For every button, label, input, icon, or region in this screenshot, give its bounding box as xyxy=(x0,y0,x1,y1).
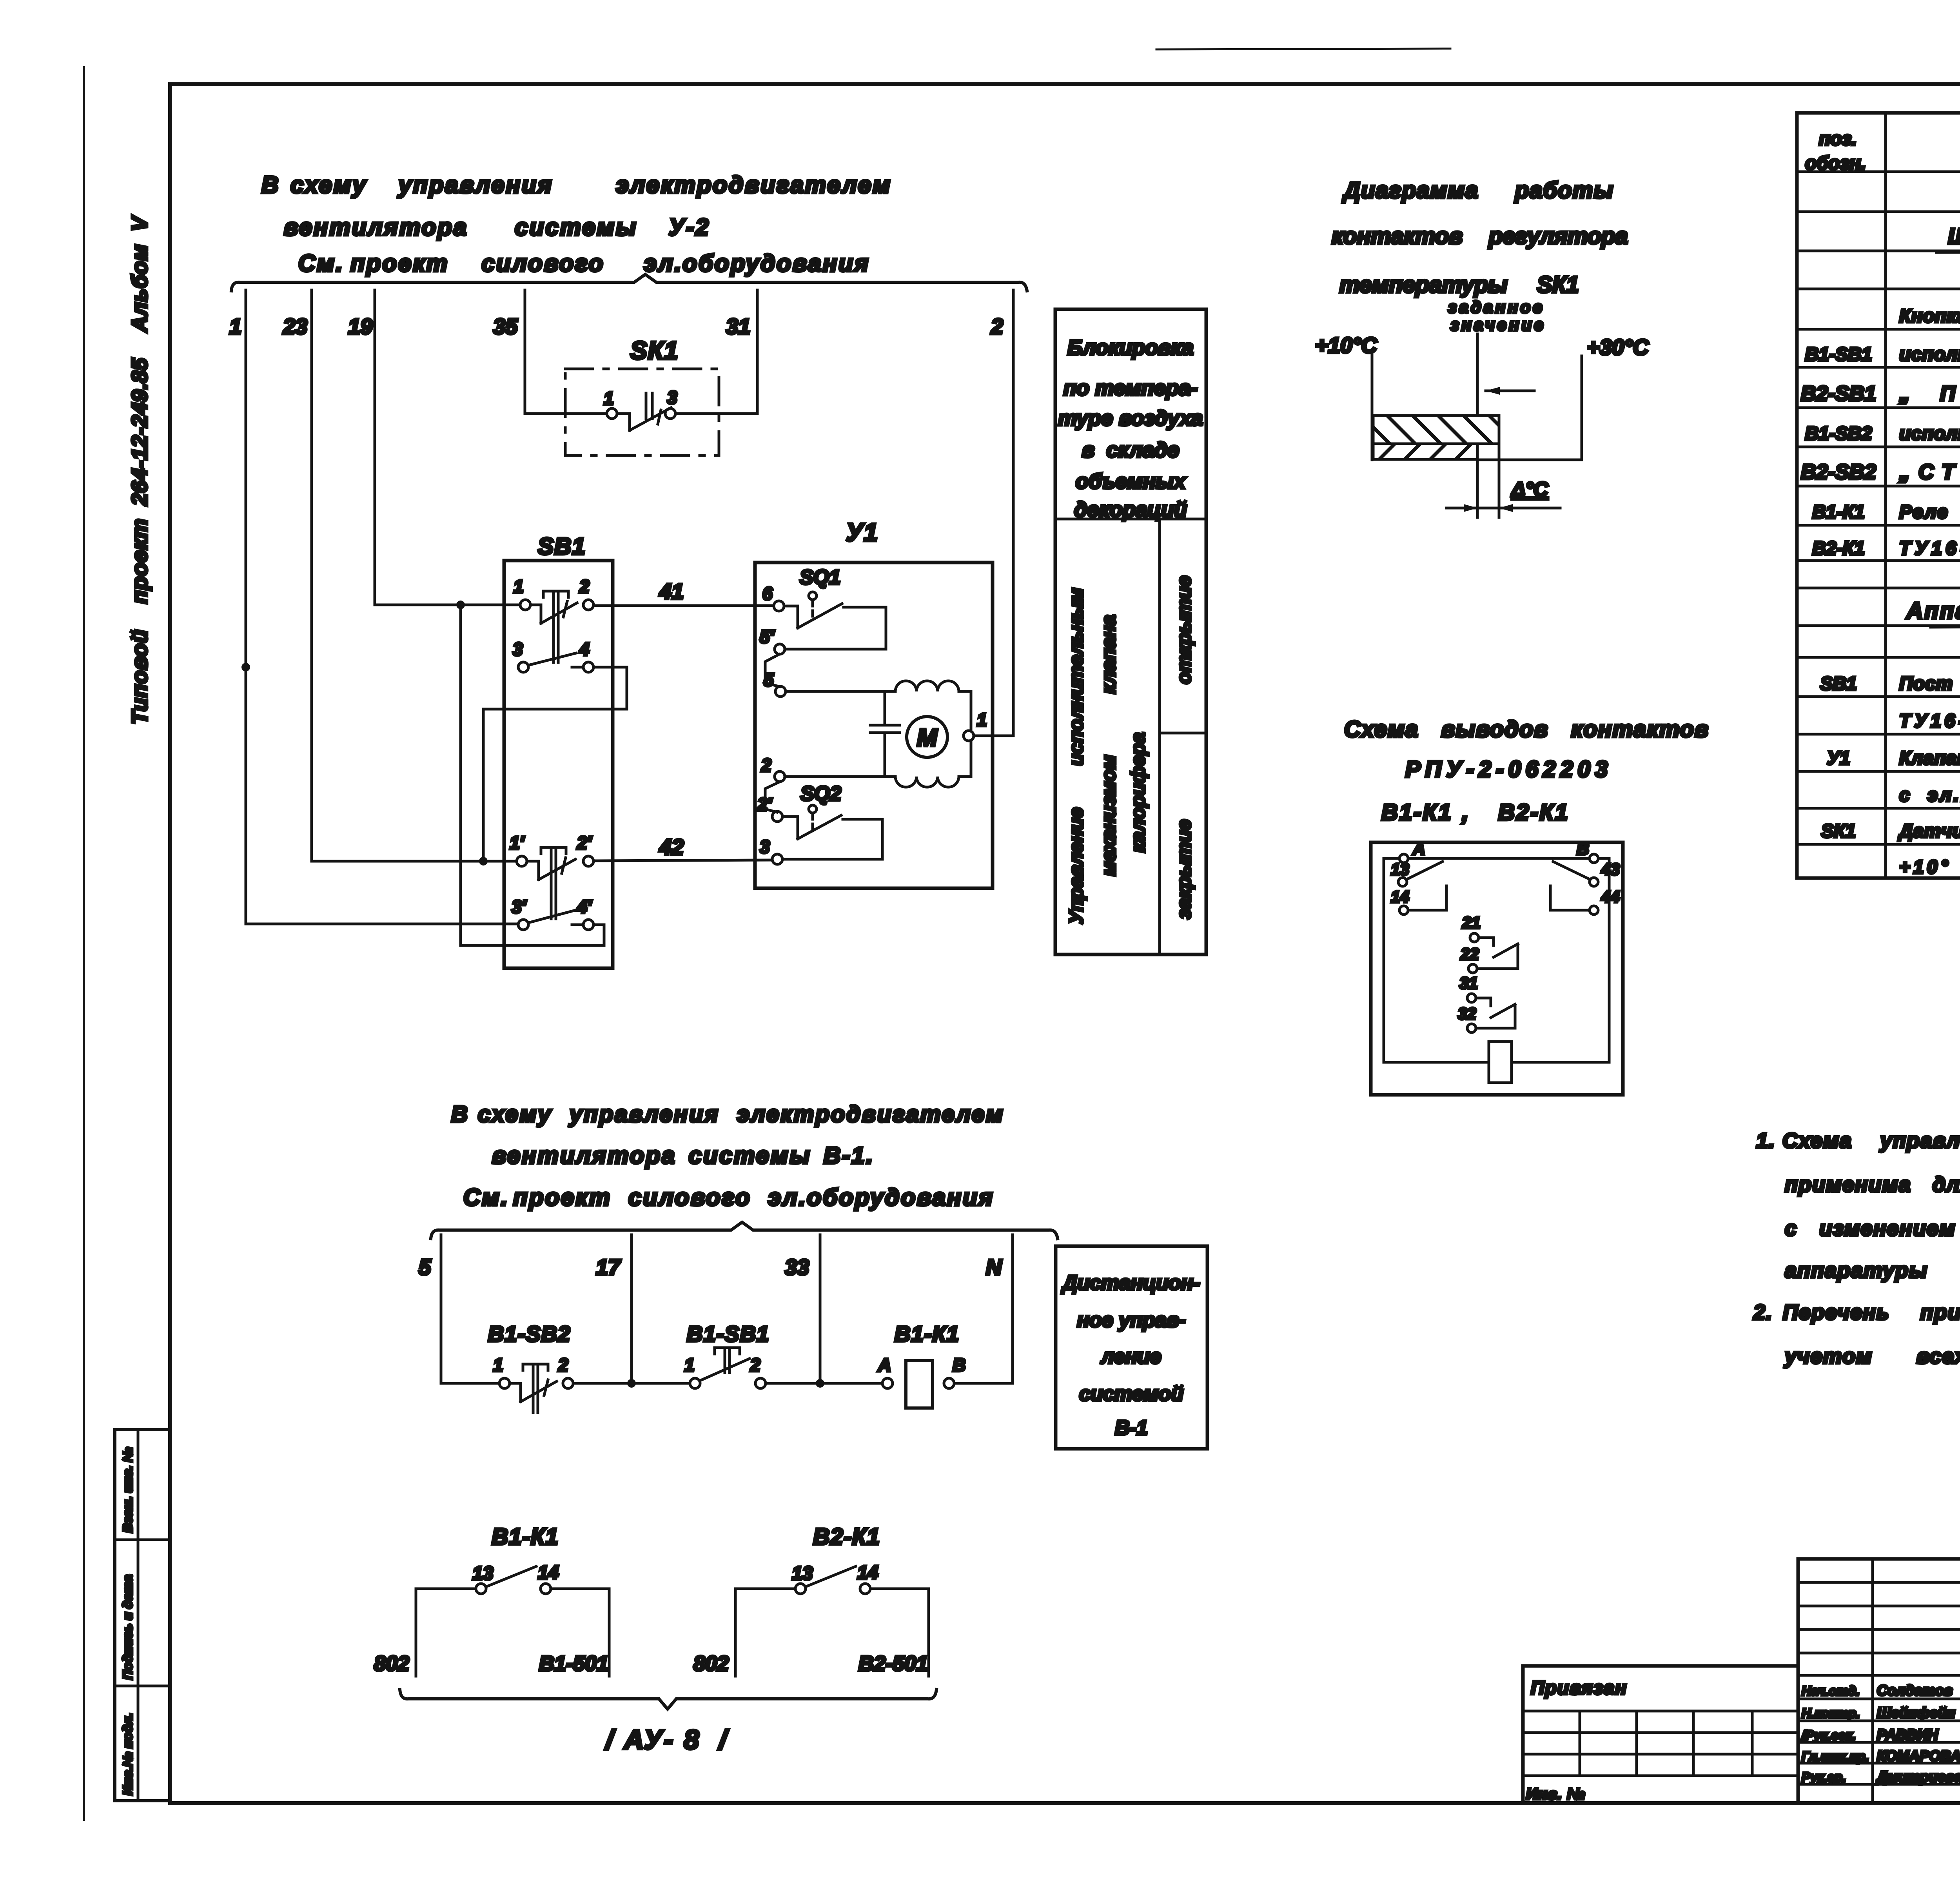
wire N xyxy=(986,1235,1013,1383)
svg-text:вентилятора системы В-1.: вентилятора системы В-1. xyxy=(492,1142,874,1169)
svg-text:1: 1 xyxy=(977,709,987,730)
svg-text:Типовой проект 264-12-249.85: Типовой проект 264-12-249.85 Альбом V xyxy=(127,215,152,724)
svg-text:1: 1 xyxy=(604,388,614,408)
wire 33 xyxy=(785,1235,824,1388)
svg-text:2: 2 xyxy=(750,1355,760,1375)
parts list table xyxy=(1797,113,1960,878)
remote control annotation box xyxy=(1056,1246,1207,1449)
svg-text:В схему управления элек: В схему управления электродвигателем xyxy=(261,172,892,198)
table row: B2-SB2 xyxy=(1801,460,1960,484)
relay contact 31-32 xyxy=(1458,974,1515,1032)
svg-text:В2-К1: В2-К1 xyxy=(813,1524,880,1550)
svg-text:с эл.приводом МЭО-063/10-25: с эл.приводом МЭО-063/10-25П xyxy=(1899,785,1960,806)
wire 5 to motor node xyxy=(786,690,895,693)
table section: control panel xyxy=(1936,224,1960,252)
notes text xyxy=(1753,1129,1960,1368)
SB1 contact 3p-4p (NO) xyxy=(512,896,593,930)
svg-text:31: 31 xyxy=(726,314,750,339)
svg-text:исполнение 2, толкатель чер: исполнение 2, толкатель черный xyxy=(1899,344,1960,365)
title block text xyxy=(1526,1586,1960,1803)
svg-text:заданное: заданное xyxy=(1448,298,1544,317)
svg-text:В: В xyxy=(1577,839,1589,858)
svg-text:Шейнфейн: Шейнфейн xyxy=(1877,1705,1955,1721)
hatched band upper (contact closed range) xyxy=(1373,416,1499,444)
svg-text:33: 33 xyxy=(785,1255,809,1279)
relay contact 21-22 xyxy=(1460,913,1518,973)
svg-text:У1: У1 xyxy=(1827,748,1850,769)
SB1 contact 3-4 (NO) xyxy=(513,639,593,672)
svg-text:N: N xyxy=(986,1255,1002,1279)
table row: range xyxy=(1899,857,1960,878)
svg-text:См. проект силового эл.о: См. проект силового эл.оборудования xyxy=(463,1184,994,1210)
svg-text:Солдатов: Солдатов xyxy=(1877,1682,1953,1698)
relay coil B1-K1 xyxy=(878,1321,965,1408)
svg-text:значение: значение xyxy=(1450,316,1546,334)
svg-text:2′: 2′ xyxy=(577,833,592,853)
table row: SB1 post xyxy=(1820,673,1960,694)
svg-text:ТУ16-526.216-71: ТУ16-526.216-71 xyxy=(1899,711,1960,731)
svg-text:14: 14 xyxy=(538,1562,559,1583)
annotation box: interlock / valve control xyxy=(1055,309,1206,954)
wire 19 (bus) xyxy=(375,290,520,609)
table header text xyxy=(1805,129,1960,174)
svg-text:4: 4 xyxy=(579,639,590,659)
svg-text:В1-SВ1: В1-SВ1 xyxy=(687,1321,769,1346)
wire 2 to motor node xyxy=(786,775,895,778)
svg-text:35: 35 xyxy=(493,314,518,339)
wire 5 xyxy=(419,1235,441,1383)
svg-text:Привязан: Привязан xyxy=(1531,1678,1627,1698)
svg-text:У1: У1 xyxy=(846,518,878,546)
svg-text:В1-К1: В1-К1 xyxy=(1812,502,1865,523)
limit switch SQ2 xyxy=(757,755,882,864)
svg-text:обозн.: обозн. xyxy=(1805,153,1866,174)
svg-text:В схему управления электродв: В схему управления электродвигателем xyxy=(451,1101,1004,1127)
left margin stamp table xyxy=(115,1430,170,1801)
svg-text:SQ1: SQ1 xyxy=(800,566,840,589)
control line xyxy=(441,1382,1013,1385)
svg-text:3: 3 xyxy=(667,387,677,408)
svg-text:Аппаратура по месту: Аппаратура по месту xyxy=(1906,598,1960,624)
svg-text:Δ°С: Δ°С xyxy=(1511,478,1549,501)
bus wire number labels xyxy=(229,314,1003,339)
contact B1-K1 (to AU-8) xyxy=(374,1524,609,1676)
contact B2-K1 (to AU-8) xyxy=(693,1524,929,1676)
wire 23 (bus) xyxy=(312,290,517,861)
relay terminal A with contact 13-14 xyxy=(1391,839,1446,915)
wire 35 xyxy=(525,290,607,414)
svg-text:открытие: открытие xyxy=(1173,576,1195,684)
svg-text:В1-501: В1-501 xyxy=(539,1652,608,1675)
svg-text:17: 17 xyxy=(596,1255,621,1279)
svg-text:3: 3 xyxy=(513,639,523,659)
svg-text:23: 23 xyxy=(283,314,307,339)
svg-text:SК1: SК1 xyxy=(630,336,679,365)
push-button station SB1 box xyxy=(504,533,613,968)
svg-text:калорифера: калорифера xyxy=(1127,732,1149,853)
svg-text:1: 1 xyxy=(229,314,241,339)
svg-text:2: 2 xyxy=(579,576,590,597)
brace to AU-8 xyxy=(400,1689,936,1755)
svg-text:Дмитриева: Дмитриева xyxy=(1876,1769,1960,1785)
relay outline boxes xyxy=(1371,842,1623,1095)
motor M xyxy=(907,717,947,757)
svg-text:13: 13 xyxy=(792,1563,813,1584)
motor winding lower xyxy=(895,741,971,787)
svg-text:Блокировка: Блокировка xyxy=(1067,336,1194,359)
table section: local apparatus xyxy=(1906,598,1960,627)
svg-text:объемных: объемных xyxy=(1076,470,1187,493)
svg-text:ление: ление xyxy=(1100,1345,1161,1368)
wire 42 xyxy=(593,835,773,861)
svg-text:См. проект силового э: См. проект силового эл.оборудования xyxy=(298,250,870,276)
svg-text:44: 44 xyxy=(1601,887,1620,906)
signature rows text xyxy=(1801,1682,1960,1785)
svg-text:802: 802 xyxy=(693,1652,729,1675)
brace over schematic 2 bus xyxy=(431,1222,1058,1239)
limit switch SQ1 xyxy=(760,566,886,697)
svg-text:Рук.гр.: Рук.гр. xyxy=(1802,1770,1846,1784)
wire from contact 4 down to wire 42 line xyxy=(479,667,627,866)
wire 41 xyxy=(593,579,774,606)
table row: B2-SB1 xyxy=(1801,382,1960,405)
svg-text:учетом всех систем: учетом всех систем xyxy=(1784,1345,1960,1368)
svg-text:ТУ16-523.331-78: ТУ16-523.331-78 xyxy=(1899,538,1960,559)
svg-text:туре воздуха: туре воздуха xyxy=(1058,406,1203,430)
brace over schematic 1 bus xyxy=(231,274,1027,291)
svg-text:SВ1: SВ1 xyxy=(1820,673,1857,694)
svg-text:Схема выводов контактов: Схема выводов контактов xyxy=(1344,717,1709,742)
push-button B1-SB2 (NC stop) xyxy=(488,1321,573,1413)
svg-text:5: 5 xyxy=(419,1255,431,1279)
valve actuator unit U1 box xyxy=(755,518,993,888)
SB1 contact 1p-2p (NC stop) xyxy=(510,833,593,919)
svg-text:ное управ-: ное управ- xyxy=(1077,1309,1186,1332)
svg-text:исполнение 3, толкатель кра: исполнение 3, толкатель красный xyxy=(1899,423,1960,444)
svg-text:13: 13 xyxy=(1391,860,1409,878)
svg-text:вентилятора системы У-2: вентилятора системы У-2 xyxy=(284,214,710,240)
svg-text:31: 31 xyxy=(1459,974,1478,992)
svg-text:КОМАРОВА: КОМАРОВА xyxy=(1877,1748,1960,1764)
svg-text:„ ПУСК“: „ ПУСК“ xyxy=(1899,382,1960,405)
table row: B1-SB2 xyxy=(1805,423,1960,444)
temperature regulator diagram title xyxy=(1332,178,1628,334)
svg-text:3: 3 xyxy=(760,836,770,857)
svg-text:6: 6 xyxy=(762,583,773,604)
motor winding upper xyxy=(895,681,971,731)
svg-text:+10° ÷ +30°С: +10° ÷ +30°С xyxy=(1899,857,1960,878)
svg-text:41: 41 xyxy=(659,579,684,604)
svg-text:Инв.№ подл.: Инв.№ подл. xyxy=(120,1713,135,1795)
svg-text:1′: 1′ xyxy=(510,833,525,853)
svg-text:В1-SВ2: В1-SВ2 xyxy=(488,1321,571,1346)
svg-text:температуры SК1: температуры SК1 xyxy=(1339,272,1579,298)
table row: B1-K1 xyxy=(1812,502,1960,523)
svg-text:+30°С: +30°С xyxy=(1587,335,1649,359)
table row: U1 valve xyxy=(1827,748,1960,769)
svg-text:применима для вытяжной: применима для вытяжной системы В-2 xyxy=(1785,1173,1960,1196)
svg-text:В-1: В-1 xyxy=(1115,1417,1148,1439)
svg-text:1: 1 xyxy=(493,1355,503,1375)
svg-text:/ АУ- 8 /: / АУ- 8 / xyxy=(604,1724,729,1755)
setpoint arrow xyxy=(1486,387,1534,395)
svg-text:Щит управления: Щит управления xyxy=(1948,224,1960,249)
svg-text:4′: 4′ xyxy=(577,896,592,917)
svg-text:Дистанцион-: Дистанцион- xyxy=(1061,1272,1200,1294)
svg-text:Управление исполнительным: Управление исполнительным xyxy=(1065,588,1087,924)
schematic 1 title text xyxy=(261,172,892,276)
svg-text:43: 43 xyxy=(1601,860,1620,878)
svg-text:Клапан регулирующий 254939: Клапан регулирующий 254939 нж xyxy=(1899,748,1960,769)
wire from contact 4p loop up to line of contact 1 xyxy=(461,605,604,945)
title block xyxy=(1523,1559,1960,1803)
svg-text:19: 19 xyxy=(348,314,372,339)
left margin vertical label: project name xyxy=(127,208,152,724)
svg-text:Реле РПУ-2-062203, ~220В: Реле РПУ-2-062203, ~220В xyxy=(1899,502,1960,523)
wire 2 (bus) xyxy=(973,290,1013,736)
svg-text:Кнопка КЕ-011УЗ ТУ16-52: Кнопка КЕ-011УЗ ТУ16-526.407-79 xyxy=(1899,306,1960,327)
svg-text:РПУ-2-062203: РПУ-2-062203 xyxy=(1405,757,1612,782)
svg-text:SВ1: SВ1 xyxy=(538,533,586,559)
table row: TU16 xyxy=(1899,711,1960,731)
svg-text:Датчик-реле температуры ДТ: Датчик-реле температуры ДТКБ-50 xyxy=(1898,821,1960,842)
svg-text:+10°С: +10°С xyxy=(1315,333,1377,357)
svg-text:Подпись и дата: Подпись и дата xyxy=(120,1575,135,1680)
svg-text:42: 42 xyxy=(659,835,684,859)
svg-text:В1-К1 , В2-К1: В1-К1 , В2-К1 xyxy=(1381,800,1569,825)
svg-text:/Рук.сек.: /Рук.сек. xyxy=(1801,1728,1856,1742)
svg-text:В1-К1: В1-К1 xyxy=(895,1321,960,1346)
svg-text:2: 2 xyxy=(558,1355,568,1375)
svg-text:В1-SВ1: В1-SВ1 xyxy=(1805,344,1872,365)
svg-text:Н.контр.: Н.контр. xyxy=(1802,1706,1860,1720)
svg-text:3′: 3′ xyxy=(512,896,527,917)
hatched band lower xyxy=(1373,444,1477,459)
svg-text:SQ2: SQ2 xyxy=(800,782,841,805)
wire 1 (bus) xyxy=(241,290,518,924)
svg-text:Гл.инж.пр.: Гл.инж.пр. xyxy=(1802,1749,1869,1764)
wire 17 xyxy=(596,1235,636,1388)
svg-text:13: 13 xyxy=(472,1563,494,1584)
svg-text:2: 2 xyxy=(761,755,771,775)
svg-text:В1-К1: В1-К1 xyxy=(492,1524,559,1550)
svg-text:контактов регулятора: контактов регулятора xyxy=(1332,223,1628,249)
svg-text:22: 22 xyxy=(1460,945,1479,963)
svg-text:в складе: в складе xyxy=(1082,438,1179,462)
svg-text:закрытие: закрытие xyxy=(1173,819,1195,919)
table row: B2-K1 xyxy=(1812,538,1960,559)
svg-text:1: 1 xyxy=(514,576,524,597)
svg-text:В1-SВ2: В1-SВ2 xyxy=(1805,423,1872,444)
wire 31 xyxy=(675,290,757,414)
table row: SK1 sensor xyxy=(1821,821,1960,842)
svg-text:с изменением индекса В: с изменением индекса В1 в обозначении xyxy=(1785,1217,1960,1240)
temperature switch SK1 xyxy=(565,336,719,455)
svg-text:системой: системой xyxy=(1079,1383,1183,1405)
table row: el privod xyxy=(1899,785,1960,806)
svg-text:В2-К1: В2-К1 xyxy=(1812,538,1865,559)
svg-text:М: М xyxy=(917,724,938,751)
schematic 2 title text xyxy=(451,1101,1004,1210)
svg-text:„СТОП“: „СТОП“ xyxy=(1899,460,1960,484)
svg-text:2: 2 xyxy=(991,314,1003,339)
svg-text:2. Перечень приборов и а: 2. Перечень приборов и аппаратуры состав… xyxy=(1753,1301,1960,1324)
svg-text:14: 14 xyxy=(857,1562,878,1583)
SB1 contact 1-2 (NC stop) xyxy=(514,576,593,662)
svg-text:А: А xyxy=(878,1355,891,1375)
svg-text:декораций: декораций xyxy=(1074,498,1187,521)
table row: B1-SB1 xyxy=(1805,344,1960,365)
svg-text:по темпера-: по темпера- xyxy=(1063,376,1198,400)
svg-text:А: А xyxy=(1412,839,1425,858)
svg-text:аппаратуры и маркировке: аппаратуры и маркировке проводов на инде… xyxy=(1785,1259,1960,1282)
relay RPU-2-062203 contact layout title xyxy=(1344,717,1709,825)
svg-text:Диаграмма работы: Диаграмма работы xyxy=(1342,178,1614,203)
svg-text:Инв. №: Инв. № xyxy=(1526,1785,1585,1803)
svg-text:В2-SВ1: В2-SВ1 xyxy=(1801,382,1876,405)
svg-text:14: 14 xyxy=(1391,887,1409,906)
terminal 1 of U1 xyxy=(964,709,987,741)
svg-text:поз.: поз. xyxy=(1819,129,1857,149)
svg-text:5: 5 xyxy=(764,670,774,690)
svg-text:32: 32 xyxy=(1458,1004,1476,1023)
svg-text:21: 21 xyxy=(1462,913,1481,932)
svg-text:1. Схема управления вытяжн: 1. Схема управления вытяжной системой В-… xyxy=(1756,1129,1960,1152)
svg-text:механизмом клапана: механизмом клапана xyxy=(1098,615,1120,876)
temperature diagram axes xyxy=(1315,333,1649,517)
svg-text:Пост управления кнопочный П: Пост управления кнопочный ПКЕ-212-2УЗ xyxy=(1899,673,1960,694)
svg-text:SК1: SК1 xyxy=(1821,821,1856,842)
svg-text:В2-501: В2-501 xyxy=(858,1652,928,1675)
table row: button KE-0114 xyxy=(1899,306,1960,327)
svg-text:802: 802 xyxy=(374,1652,409,1675)
svg-text:2′: 2′ xyxy=(757,794,773,815)
svg-text:РАВВИН: РАВВИН xyxy=(1877,1727,1938,1743)
svg-text:5′: 5′ xyxy=(760,626,775,647)
capacitor xyxy=(870,691,900,777)
push-button B1-SB1 (NO start) xyxy=(684,1321,769,1388)
svg-text:Нач.отд.: Нач.отд. xyxy=(1802,1684,1860,1698)
relay terminal B with contact 43-44 xyxy=(1550,839,1620,915)
svg-text:В: В xyxy=(953,1355,965,1375)
svg-text:1: 1 xyxy=(684,1355,695,1375)
relay coil xyxy=(1489,1042,1512,1083)
svg-text:Взам. инв. №: Взам. инв. № xyxy=(120,1447,135,1533)
svg-text:В2-SВ2: В2-SВ2 xyxy=(1801,460,1876,484)
differential dimension xyxy=(1446,478,1560,512)
